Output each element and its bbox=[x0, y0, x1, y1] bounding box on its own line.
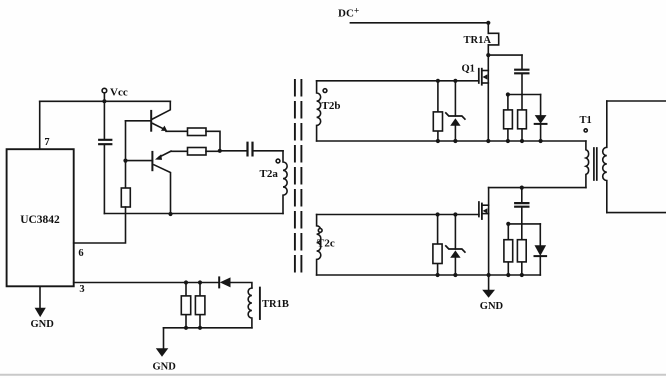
inductor TR1A lead bottom bbox=[487, 45, 489, 55]
wire Q4 emitter to R2 bbox=[171, 150, 188, 152]
wire snubber row upper bbox=[508, 94, 541, 96]
junction node drive bbox=[218, 149, 222, 153]
wire top rail Vcc bbox=[40, 100, 171, 102]
transistor Q3 emitter bbox=[153, 123, 164, 128]
svg-text:T2b: T2b bbox=[322, 100, 341, 112]
junction TR1B bottom b bbox=[198, 326, 202, 330]
resistor R12 bbox=[517, 240, 526, 262]
wire D2 to TR1B bbox=[231, 283, 252, 289]
transformer T2a winding bbox=[283, 151, 287, 214]
resistor R1 bbox=[188, 128, 207, 136]
T1 phase dot bbox=[584, 129, 587, 132]
ground GND3 arrow bbox=[156, 348, 169, 356]
diode D3 cathode bar bbox=[535, 123, 547, 125]
resistor R6 leads bbox=[185, 283, 187, 328]
wire TR1B bottom lead bbox=[164, 327, 252, 329]
mosfet Q1 channel bar bbox=[481, 69, 483, 85]
svg-text:TR1A: TR1A bbox=[464, 35, 492, 46]
ground GND1 arrow bbox=[35, 308, 46, 317]
transistor Q4 PNP base bar bbox=[151, 152, 153, 170]
junction upper rail d3 bbox=[539, 139, 543, 143]
resistor R11 leads bbox=[507, 224, 509, 275]
TR1B core bar bbox=[259, 288, 261, 319]
resistor R12 leads bbox=[521, 224, 523, 275]
junction gate lead a bbox=[436, 79, 440, 83]
mosfet Q2 source stub bbox=[482, 213, 489, 215]
diode D4 lead bbox=[539, 224, 541, 245]
Vcc terminal circle bbox=[102, 88, 107, 93]
wire mid line to T1 bbox=[489, 187, 586, 189]
wire R2 right lead bbox=[206, 150, 220, 152]
junction mid line cap bbox=[520, 186, 524, 190]
T1 core bar left bbox=[593, 148, 595, 180]
transformer T1 secondary winding bbox=[603, 101, 607, 213]
svg-text:T1: T1 bbox=[580, 115, 592, 126]
resistor R9 bbox=[518, 110, 527, 129]
transistor Q4 base lead bbox=[126, 160, 153, 162]
capacitor C1 plates bbox=[99, 140, 111, 144]
junction lower rail z2 bbox=[453, 273, 457, 277]
svg-text:T2c: T2c bbox=[317, 238, 335, 250]
junction upper rail q1 bbox=[486, 139, 490, 143]
zener Z2 triangle bbox=[450, 250, 460, 257]
junction lower rail r13 bbox=[436, 273, 440, 277]
resistor R5 bbox=[121, 188, 130, 207]
diode D4 cathode bar bbox=[535, 255, 547, 257]
T2c phase dot bbox=[318, 229, 322, 233]
junction snubber lower left bbox=[506, 222, 510, 226]
svg-text:Vcc: Vcc bbox=[110, 87, 128, 99]
transistor Q3 collector bbox=[153, 101, 171, 119]
capacitor C3 plates bbox=[515, 70, 528, 74]
inductor TR1A bump bbox=[488, 33, 498, 45]
mosfet Q1 drain stub bbox=[482, 70, 489, 72]
wire T2b gate lead bbox=[317, 80, 479, 82]
wire pin7 vertical bbox=[39, 101, 41, 149]
zener Z2 bar with wings bbox=[446, 246, 465, 252]
diode D4 bottom lead bbox=[539, 256, 541, 275]
diode D3 triangle bbox=[535, 115, 547, 124]
capacitor C1 top lead bbox=[103, 101, 105, 139]
mosfet Q2 arrow bbox=[483, 208, 488, 213]
IC U1 UC3842 bbox=[7, 149, 74, 286]
inductor TR1A lead top bbox=[487, 23, 489, 34]
junction TR1B bottom a bbox=[184, 326, 188, 330]
junction base tie bbox=[123, 159, 127, 163]
wire driver bottom rail bbox=[104, 213, 283, 215]
diode D3 bottom lead bbox=[540, 124, 542, 141]
diode D2 cathode bar bbox=[218, 277, 220, 287]
transistor Q4 emitter arrow bbox=[155, 154, 162, 160]
junction lower rail r11 bbox=[506, 273, 510, 277]
transistor Q3 emitter arrow bbox=[161, 126, 167, 131]
junction pin3 a bbox=[184, 280, 188, 284]
svg-text:T2a: T2a bbox=[260, 168, 279, 180]
zener Z1 top lead bbox=[454, 81, 456, 116]
wire upper rail bbox=[317, 140, 586, 142]
resistor R10 leads bbox=[437, 81, 439, 141]
junction lower rail q2 bbox=[487, 273, 491, 277]
transistor Q3 base lead bbox=[126, 120, 152, 122]
zener Z1 triangle bbox=[450, 118, 460, 126]
diode D2 triangle bbox=[220, 277, 231, 287]
resistor R11 bbox=[504, 240, 513, 262]
wire R1 right lead bbox=[206, 131, 220, 150]
svg-text:3: 3 bbox=[79, 284, 84, 295]
T1 core bar right bbox=[596, 148, 598, 180]
capacitor C3 bottom lead bbox=[521, 74, 523, 95]
wire GND2 lead bbox=[488, 275, 490, 290]
junction DC+ end bbox=[486, 21, 490, 25]
svg-text:GND: GND bbox=[153, 362, 177, 373]
transformer core dashed line right bbox=[300, 80, 302, 275]
capacitor C3 top lead bbox=[521, 55, 523, 69]
svg-text:TR1B: TR1B bbox=[262, 299, 289, 310]
svg-text:GND: GND bbox=[31, 319, 55, 330]
capacitor C2 right lead bbox=[253, 150, 283, 152]
junction upper rail r9 bbox=[520, 139, 524, 143]
capacitor C2 plates bbox=[248, 143, 253, 156]
T2b phase dot bbox=[323, 89, 327, 93]
mosfet Q1 source stub bbox=[482, 82, 489, 84]
junction pin3 b bbox=[198, 280, 202, 284]
wire base tie vertical bbox=[125, 121, 127, 188]
wire TR1A to C3 bbox=[488, 54, 522, 56]
resistor R7 bbox=[195, 296, 205, 315]
capacitor C4 bottom lead bbox=[521, 207, 523, 224]
wire Q3 emitter to R1 bbox=[166, 130, 188, 132]
wire lower rail bbox=[317, 274, 541, 276]
capacitor C1 bottom lead bbox=[103, 144, 105, 213]
resistor R8 leads bbox=[507, 95, 509, 142]
transistor Q4 collector bbox=[154, 165, 171, 214]
zener Z1 bar with wings bbox=[446, 113, 465, 119]
resistor R7 leads bbox=[199, 283, 201, 328]
resistor R8 bbox=[504, 110, 513, 129]
wire Vcc stub bbox=[103, 93, 105, 101]
diode D3 lead bbox=[540, 95, 542, 116]
zener Z2 bottom lead bbox=[454, 258, 456, 275]
transformer T1 primary winding bbox=[586, 141, 589, 188]
mosfet Q2 gate bar bbox=[478, 202, 480, 217]
wire T1 secondary top lead bbox=[607, 100, 666, 102]
wire IC ground lead bbox=[39, 286, 41, 307]
transformer core dashed line left bbox=[294, 80, 296, 275]
capacitor C2 left lead bbox=[220, 150, 248, 152]
junction upper rail z1 bbox=[453, 139, 457, 143]
inductor TR1B winding bbox=[248, 288, 252, 328]
transistor Q3 NPN base bar bbox=[150, 111, 152, 131]
resistor R13 leads bbox=[437, 215, 439, 276]
mosfet Q1 arrow bbox=[483, 74, 488, 79]
svg-text:7: 7 bbox=[44, 137, 49, 148]
diode D4 triangle bbox=[535, 245, 547, 256]
svg-text:UC3842: UC3842 bbox=[20, 214, 60, 226]
wire pin3 rail bbox=[74, 282, 219, 284]
junction T2c lead b bbox=[453, 212, 457, 216]
junction upper rail r8 bbox=[506, 139, 510, 143]
junction Vcc node bbox=[102, 99, 106, 103]
svg-text:Q1: Q1 bbox=[462, 64, 475, 75]
junction TR1A bottom bbox=[486, 53, 490, 57]
mosfet Q2 channel bar bbox=[481, 204, 483, 220]
transformer T2b winding bbox=[317, 81, 321, 141]
T2a phase dot bbox=[276, 159, 280, 163]
wire T1 secondary bottom lead bbox=[607, 212, 666, 214]
wire snubber row lower bbox=[508, 223, 540, 225]
svg-text:GND: GND bbox=[480, 301, 504, 312]
junction driver rail bbox=[168, 212, 172, 216]
wire T2c gate lead bbox=[317, 214, 479, 216]
mosfet Q1 gate bar bbox=[478, 69, 480, 83]
capacitor C4 plates bbox=[515, 203, 528, 207]
resistor R2 bbox=[188, 148, 207, 156]
svg-text:6: 6 bbox=[78, 248, 83, 259]
resistor R9 leads bbox=[521, 95, 523, 142]
transistor Q4 emitter bbox=[159, 151, 171, 157]
transformer T2c winding bbox=[317, 215, 321, 276]
wire to GND3 bbox=[163, 328, 165, 349]
resistor R10 bbox=[433, 112, 442, 131]
junction upper rail r10 bbox=[436, 139, 440, 143]
mosfet Q2 main vertical bbox=[488, 188, 490, 275]
zener Z1 bottom lead bbox=[454, 126, 456, 141]
mosfet Q1 main vertical bbox=[487, 55, 489, 141]
svg-text:DC+: DC+ bbox=[338, 7, 359, 20]
mosfet Q2 drain stub bbox=[482, 204, 489, 206]
wire R5 to pin6 bbox=[74, 207, 126, 243]
capacitor C4 top lead bbox=[521, 188, 523, 203]
ground GND2 arrow bbox=[482, 290, 495, 298]
wire DC+ rail bbox=[350, 22, 488, 24]
junction lower rail r12 bbox=[520, 273, 524, 277]
resistor R6 bbox=[181, 296, 190, 315]
resistor R13 bbox=[433, 244, 442, 264]
junction T2c lead a bbox=[436, 212, 440, 216]
junction snubber left bbox=[506, 92, 510, 96]
junction gate lead b bbox=[453, 79, 457, 83]
zener Z2 top lead bbox=[454, 215, 456, 250]
